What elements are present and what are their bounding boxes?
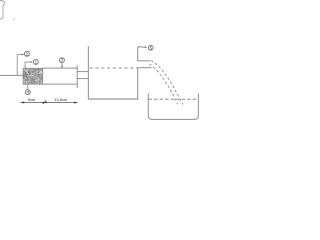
water jet inner dashed curve [149,64,177,104]
pipe bottom wall [43,83,78,85]
connector tube top [77,71,88,73]
inlet tube wire [0,74,23,76]
dim arrow right [74,102,78,104]
speck dot [13,19,15,21]
connector tube bottom [77,78,88,80]
label 4 leader [27,84,29,89]
beaker outline [148,93,198,119]
label 5 leader arrowhead [145,46,148,48]
label 3 circle [59,58,64,63]
dimension line [21,102,78,104]
tank left wall [87,46,89,99]
tank right wall upper [137,47,139,61]
label 1 leader [25,62,31,68]
svg-text:13.5cm: 13.5cm [54,97,67,102]
water jet outer dashed curve [151,61,183,105]
svg-text:9cm: 9cm [28,97,35,102]
spout bottom wall [137,67,151,69]
tank bottom [88,98,138,100]
label 2 leader [17,55,23,76]
tank water level dashes [90,67,137,69]
label 1 circle [33,59,38,64]
label 2 circle [24,51,29,56]
label 5 circle [148,45,153,50]
pipe top wall [43,67,78,69]
beaker water level dashes [149,98,198,100]
porous plug stipple fill [23,68,43,83]
label 3 leader arrowhead [61,66,63,69]
porous plug P border [23,68,42,84]
spout top wall [137,60,150,62]
label 5 leader [138,46,146,48]
label 2 leader arrowhead [22,54,25,56]
label 3 leader [61,63,63,67]
label 4 circle [25,90,30,95]
tank right wall lower [137,68,139,100]
dim arrows middle [42,102,45,104]
label 1 leader arrowhead [30,61,33,63]
dim arrow left [20,102,24,104]
flask (clipped at left edge, top-left corner) [0,1,5,20]
end flange [76,65,78,88]
